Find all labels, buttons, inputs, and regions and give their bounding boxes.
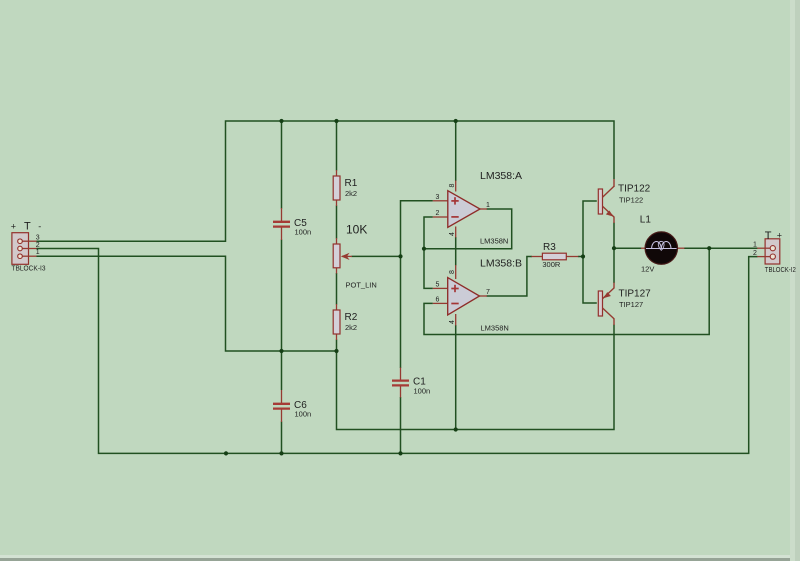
terminal block J2 TBLOCK-I2 xyxy=(753,230,796,274)
wire pot wiper to node xyxy=(352,255,401,257)
motor L1 12V xyxy=(640,215,685,274)
wire op-amp B output to R3 xyxy=(487,257,532,297)
svg-text:7: 7 xyxy=(486,289,490,296)
wire R1 bottom to pot top xyxy=(336,206,338,239)
svg-text:2: 2 xyxy=(36,242,40,249)
node motor right xyxy=(707,246,711,250)
wire C1 bottom to ground rail xyxy=(400,397,402,453)
svg-text:2k2: 2k2 xyxy=(345,323,357,332)
svg-text:T: T xyxy=(765,230,772,242)
node R1 +rail xyxy=(334,119,338,123)
wire base node riser TIP122 base to TIP127 base xyxy=(583,201,597,303)
node C5 +rail xyxy=(279,119,283,123)
wire R1 top to +rail xyxy=(336,121,338,171)
border right xyxy=(790,0,795,561)
svg-text:300R: 300R xyxy=(542,260,561,269)
svg-text:R3: R3 xyxy=(543,242,556,253)
transistor Q2 TIP127 xyxy=(598,283,651,326)
transistor Q1 TIP122 xyxy=(598,179,650,223)
node output emitters xyxy=(612,246,616,250)
svg-text:TBLOCK-I3: TBLOCK-I3 xyxy=(12,266,46,273)
svg-text:12V: 12V xyxy=(641,265,654,274)
svg-text:R2: R2 xyxy=(345,312,358,323)
wire output node to motor xyxy=(614,247,642,249)
wire top rail from TBLOCK-I3 pin3 up to +rail across to TIP122 collector xyxy=(37,121,615,241)
svg-text:L1: L1 xyxy=(640,215,652,226)
svg-text:R1: R1 xyxy=(345,178,358,189)
wire C5 top to +rail xyxy=(281,121,283,209)
resistor R1 2k2 xyxy=(333,170,358,206)
svg-text:100n: 100n xyxy=(414,387,431,396)
svg-text:+: + xyxy=(11,221,16,231)
wire op-amp B pin6 feedback from motor node xyxy=(424,248,709,334)
wire R3 right to base node xyxy=(578,256,583,258)
wire C5 bottom to C6 top xyxy=(281,240,283,391)
svg-text:8: 8 xyxy=(449,184,456,188)
wire TBLOCK-I3 pin1 to lower mid rail xyxy=(37,256,337,351)
node ground rail joint xyxy=(224,451,228,455)
svg-text:2: 2 xyxy=(436,210,440,217)
svg-text:100n: 100n xyxy=(295,228,312,237)
wire op-amp A pin2 to feedback node xyxy=(424,217,433,249)
node lower mid rail R2 xyxy=(334,349,338,353)
svg-text:TIP127: TIP127 xyxy=(619,300,643,309)
node mid rail op-amp power xyxy=(454,427,458,431)
wire op-amp A pin8 to +rail xyxy=(455,121,457,181)
wire TBLOCK-I3 pin2 to bottom ground rail to TBLOCK-I2 pin2 xyxy=(37,249,758,454)
svg-text:T: T xyxy=(24,221,31,233)
capacitor C6 100n xyxy=(273,390,311,422)
svg-text:100n: 100n xyxy=(295,410,312,419)
svg-text:4: 4 xyxy=(449,232,456,236)
capacitor C5 100n xyxy=(273,208,311,240)
svg-text:POT_LIN: POT_LIN xyxy=(346,280,377,289)
svg-text:6: 6 xyxy=(436,297,440,304)
svg-text:LM358:B: LM358:B xyxy=(480,258,522,270)
wire op-amp A pin3 down through wiper node to C1 xyxy=(401,201,433,368)
svg-text:TIP122: TIP122 xyxy=(618,184,651,195)
svg-text:8: 8 xyxy=(449,270,456,274)
wire op-amp A output feedback loop to op-amp B pin5 xyxy=(424,209,512,288)
node R3 base xyxy=(581,254,585,258)
wire op-amp B pin4 down to mid rail xyxy=(455,325,457,430)
svg-text:2k2: 2k2 xyxy=(345,189,357,198)
svg-text:TBLOCK-I2: TBLOCK-I2 xyxy=(765,267,796,274)
svg-text:1: 1 xyxy=(753,242,757,249)
svg-text:3: 3 xyxy=(36,235,40,242)
svg-text:TIP127: TIP127 xyxy=(619,288,652,299)
svg-text:4: 4 xyxy=(449,320,456,324)
wire TIP122 emitter to output node xyxy=(613,223,615,249)
terminal block J1 TBLOCK-I3 xyxy=(11,221,46,273)
node op-amp A feedback xyxy=(422,247,426,251)
svg-text:2: 2 xyxy=(753,250,757,257)
svg-text:LM358N: LM358N xyxy=(481,324,509,333)
op-amp U1:A LM358 xyxy=(433,170,522,246)
svg-text:-: - xyxy=(38,221,41,231)
wire C6 bottom to ground rail xyxy=(281,422,283,454)
resistor R2 2k2 xyxy=(333,304,358,340)
svg-text:+: + xyxy=(777,230,782,240)
wire R2 bottom down and mid rail to TIP127 collector xyxy=(337,325,615,430)
capacitor C1 100n xyxy=(392,368,430,398)
node ground rail C6 xyxy=(279,451,283,455)
svg-text:1: 1 xyxy=(36,249,40,256)
op-amp U1:B LM358 xyxy=(433,258,522,333)
svg-text:LM358:A: LM358:A xyxy=(480,170,522,182)
svg-text:TIP122: TIP122 xyxy=(619,195,643,204)
border bottom xyxy=(0,555,800,558)
svg-text:1: 1 xyxy=(486,202,490,209)
wire motor to TBLOCK-I2 pin1 xyxy=(684,247,758,249)
wire TIP127 emitter to output node xyxy=(613,248,615,283)
node ground rail C1 xyxy=(398,451,402,455)
svg-text:10K: 10K xyxy=(346,222,367,236)
wire pot bottom to R2 top xyxy=(336,273,338,305)
svg-text:LM358N: LM358N xyxy=(480,237,508,246)
svg-text:5: 5 xyxy=(436,281,440,288)
svg-text:3: 3 xyxy=(436,194,440,201)
potentiometer RV1 10K POT_LIN xyxy=(333,222,377,289)
node wiper xyxy=(398,254,402,258)
wire op-amp A pin4 to op-amp B pin8 xyxy=(455,237,457,266)
node op-amp A pin8 +rail xyxy=(454,119,458,123)
resistor R3 300R xyxy=(532,242,579,269)
node lower mid rail C5-C6 xyxy=(279,349,283,353)
